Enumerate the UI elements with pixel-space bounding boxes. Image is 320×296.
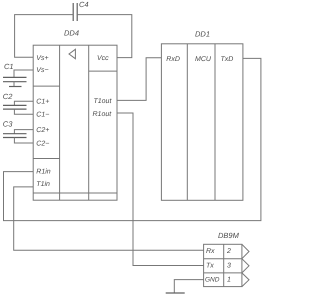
svg-text:Rx: Rx — [206, 248, 215, 255]
svg-text:C2: C2 — [3, 92, 13, 101]
wire C2+ to C3 — [14, 130, 33, 134]
svg-text:MCU: MCU — [195, 56, 212, 63]
svg-text:2: 2 — [226, 248, 231, 255]
svg-text:C1: C1 — [4, 62, 14, 71]
wire GND to ground — [174, 280, 203, 293]
svg-text:R1in: R1in — [36, 167, 51, 175]
wire C4 left to Vs+ — [15, 15, 74, 58]
svg-text:Tx: Tx — [206, 263, 214, 270]
ground — [166, 292, 185, 294]
svg-text:DB9M: DB9M — [218, 231, 240, 240]
chip DD4 — [33, 45, 117, 200]
capacitor C3 — [3, 134, 27, 138]
wire C2 to C1- — [14, 109, 33, 114]
svg-text:3: 3 — [227, 263, 231, 270]
svg-text:R1out: R1out — [93, 111, 113, 118]
svg-text:C2+: C2+ — [36, 127, 49, 134]
capacitor C4 — [73, 3, 77, 21]
wire T1in to Rx — [14, 187, 204, 250]
svg-text:GND: GND — [205, 277, 220, 284]
svg-text:Vs+: Vs+ — [36, 55, 48, 62]
wire T1out to RxD — [117, 58, 161, 101]
ground under C1 — [9, 82, 22, 87]
capacitor C2 — [3, 105, 27, 109]
wire C1+ to C2 — [14, 101, 33, 105]
connector DB9M — [204, 244, 249, 286]
capacitor C1 — [3, 77, 27, 81]
svg-text:Vs−: Vs− — [36, 67, 48, 74]
wire C4 right to Vcc — [77, 15, 132, 58]
wire R1in to TxD — [4, 58, 261, 220]
svg-text:Vcc: Vcc — [97, 55, 109, 62]
svg-text:TxD: TxD — [221, 56, 234, 63]
svg-text:T1out: T1out — [94, 98, 113, 105]
wire R1out to Tx — [117, 113, 204, 266]
svg-text:C3: C3 — [3, 119, 13, 128]
svg-text:C1+: C1+ — [36, 99, 49, 106]
svg-text:T1in: T1in — [36, 180, 50, 188]
amplifier triangle symbol — [69, 49, 75, 58]
chip DD1 — [161, 44, 243, 201]
svg-text:RxD: RxD — [166, 56, 180, 63]
svg-text:1: 1 — [227, 277, 231, 284]
wire C3 to C2- — [14, 138, 33, 144]
svg-text:C2−: C2− — [36, 140, 49, 147]
svg-text:DD1: DD1 — [195, 30, 210, 39]
wire Vs- to C1 — [14, 70, 33, 77]
svg-text:C1−: C1− — [36, 112, 49, 119]
svg-text:DD4: DD4 — [64, 29, 79, 38]
svg-text:C4: C4 — [79, 0, 89, 9]
